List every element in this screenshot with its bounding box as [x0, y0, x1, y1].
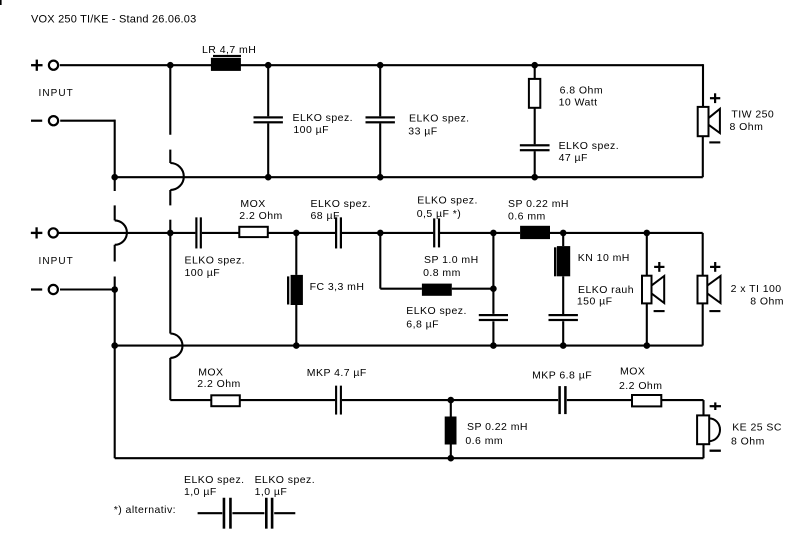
svg-text:8 Ohm: 8 Ohm [730, 121, 764, 133]
svg-text:ELKO spez.: ELKO spez. [255, 474, 316, 486]
svg-text:ELKO spez.: ELKO spez. [184, 474, 245, 486]
svg-text:6,8 µF: 6,8 µF [406, 318, 439, 330]
svg-text:ELKO spez.: ELKO spez. [293, 112, 354, 124]
svg-text:1,0 µF: 1,0 µF [184, 486, 217, 498]
svg-text:INPUT: INPUT [39, 256, 74, 267]
svg-text:100 µF: 100 µF [293, 124, 329, 136]
svg-text:TIW 250: TIW 250 [731, 108, 774, 120]
svg-text:8 Ohm: 8 Ohm [750, 295, 784, 307]
svg-text:MOX: MOX [198, 366, 223, 378]
svg-text:ELKO spez.: ELKO spez. [311, 198, 372, 210]
svg-text:ELKO spez.: ELKO spez. [417, 194, 478, 206]
svg-text:6.8 Ohm: 6.8 Ohm [560, 84, 603, 96]
svg-text:0.6 mm: 0.6 mm [508, 211, 546, 223]
svg-text:2.2 Ohm: 2.2 Ohm [239, 210, 282, 222]
svg-text:SP 0.22 mH: SP 0.22 mH [508, 198, 569, 210]
svg-text:47 µF: 47 µF [559, 152, 588, 164]
svg-text:150 µF: 150 µF [577, 295, 613, 307]
svg-text:MKP 6.8 µF: MKP 6.8 µF [532, 370, 592, 382]
svg-text:100 µF: 100 µF [185, 267, 221, 279]
svg-text:ELKO spez.: ELKO spez. [406, 305, 467, 317]
svg-text:VOX 250 TI/KE - Stand 26.06.03: VOX 250 TI/KE - Stand 26.06.03 [31, 13, 196, 25]
svg-text:0,5 µF *): 0,5 µF *) [417, 208, 462, 220]
svg-text:2 x TI 100: 2 x TI 100 [731, 283, 782, 295]
svg-text:*) alternativ:: *) alternativ: [114, 504, 176, 516]
svg-text:10 Watt: 10 Watt [559, 96, 598, 108]
svg-text:68 µF: 68 µF [311, 210, 340, 222]
svg-text:ELKO spez.: ELKO spez. [409, 113, 470, 125]
svg-text:ELKO rauh: ELKO rauh [578, 284, 634, 296]
svg-text:MOX: MOX [240, 198, 265, 210]
svg-text:KE 25 SC: KE 25 SC [732, 422, 782, 434]
svg-text:SP 0.22 mH: SP 0.22 mH [467, 421, 528, 433]
svg-text:FC 3,3 mH: FC 3,3 mH [310, 281, 365, 293]
svg-text:MKP 4.7 µF: MKP 4.7 µF [307, 367, 367, 379]
svg-text:8 Ohm: 8 Ohm [731, 435, 765, 447]
svg-text:2.2 Ohm: 2.2 Ohm [619, 380, 662, 392]
svg-text:1,0 µF: 1,0 µF [255, 486, 288, 498]
svg-text:33 µF: 33 µF [408, 126, 437, 138]
svg-text:SP 1.0 mH: SP 1.0 mH [424, 254, 479, 266]
svg-text:2.2 Ohm: 2.2 Ohm [197, 378, 240, 390]
svg-text:INPUT: INPUT [39, 88, 74, 99]
svg-text:KN 10 mH: KN 10 mH [578, 252, 630, 264]
svg-text:0.8 mm: 0.8 mm [423, 267, 461, 279]
svg-text:ELKO spez.: ELKO spez. [559, 140, 620, 152]
svg-text:0.6 mm: 0.6 mm [465, 435, 503, 447]
svg-text:LR 4,7 mH: LR 4,7 mH [202, 44, 256, 56]
svg-text:ELKO spez.: ELKO spez. [185, 254, 246, 266]
svg-text:MOX: MOX [620, 366, 645, 378]
